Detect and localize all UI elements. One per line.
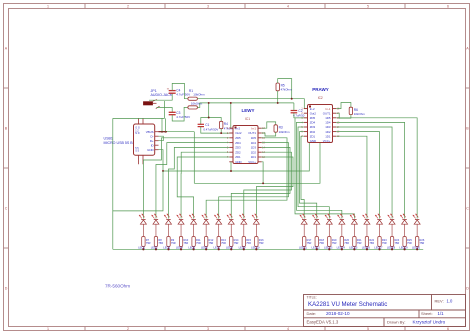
svg-text:LED6: LED6 xyxy=(201,246,208,250)
svg-text:C: C xyxy=(466,206,469,210)
IC1 VCC pin row8 xyxy=(258,161,262,163)
svg-text:4: 4 xyxy=(287,5,289,9)
svg-text:75R: 75R xyxy=(407,241,412,245)
capacitor C2 xyxy=(291,110,298,112)
wire IC1 1D1 to LED6 xyxy=(256,157,293,219)
LED LED10 xyxy=(252,214,259,224)
svg-text:In-2: In-2 xyxy=(235,126,240,130)
resistor R4 xyxy=(220,121,223,128)
svg-text:LED14: LED14 xyxy=(337,246,346,250)
svg-text:LED2: LED2 xyxy=(151,246,158,250)
svg-text:In-1: In-1 xyxy=(326,107,331,111)
svg-text:75R: 75R xyxy=(307,241,312,245)
svg-text:GND: GND xyxy=(235,160,241,164)
junction bottom node xyxy=(220,132,222,134)
junction R2 line / C1R4 drop xyxy=(208,102,210,104)
LED LED20 xyxy=(413,214,420,224)
wire LED11 anode to resistor xyxy=(303,224,305,236)
svg-text:In-1: In-1 xyxy=(251,126,256,130)
wire IC1 ZD2 to LED4 xyxy=(181,152,229,218)
wire IC2 In-1 bridge to R6 xyxy=(336,103,351,109)
wire resistor R23 to bus xyxy=(379,247,381,250)
LED LED7 xyxy=(214,214,221,224)
wire LED7 anode to resistor xyxy=(218,224,220,236)
svg-text:7R-560Ohm: 7R-560Ohm xyxy=(105,283,130,288)
svg-text:VCC+: VCC+ xyxy=(248,160,256,164)
svg-text:1D3: 1D3 xyxy=(325,125,331,129)
op-amp U IC1 KA2281 body xyxy=(233,126,258,164)
wire resistor R13 to bus xyxy=(218,247,220,250)
svg-text:IC1: IC1 xyxy=(245,117,250,121)
svg-text:0.47uF/50V: 0.47uF/50V xyxy=(203,128,218,132)
wire C1 R4 top node xyxy=(201,118,221,125)
wire IC2 1D3 to LED18 xyxy=(336,127,392,219)
svg-text:ZD5: ZD5 xyxy=(310,116,316,120)
svg-text:75R: 75R xyxy=(196,241,201,245)
svg-text:C1: C1 xyxy=(205,123,209,127)
wire IC2 ZD1 to LED15 xyxy=(301,136,304,218)
wire LED14 anode to resistor xyxy=(341,224,343,236)
svg-text:1D2: 1D2 xyxy=(251,150,257,154)
resistor R25 xyxy=(403,237,406,247)
wire LED20 anode to resistor xyxy=(416,224,418,236)
LED LED4 xyxy=(177,214,184,224)
wire LED2 anode to resistor xyxy=(155,224,157,236)
wire resistor R24 to bus xyxy=(391,247,393,250)
wire C3 bottom to R2 xyxy=(172,107,188,121)
IC2 VCC pin bottom xyxy=(319,142,321,144)
wire LED10 anode to resistor xyxy=(255,224,257,236)
IC1 GND pin row8 xyxy=(229,161,233,163)
IC1 pin stubs right xyxy=(258,127,262,129)
wire LED19 anode to resistor xyxy=(404,224,406,236)
svg-text:LED3: LED3 xyxy=(163,246,170,250)
wire C2 bottom to IC2 pin xyxy=(294,113,308,118)
wire LED5 anode to resistor xyxy=(193,224,195,236)
svg-text:4.7uF/50: 4.7uF/50 xyxy=(293,113,305,117)
title block xyxy=(304,295,466,327)
junction R23 bus xyxy=(378,248,380,250)
svg-text:1D4: 1D4 xyxy=(251,141,257,145)
svg-text:LED5: LED5 xyxy=(188,246,195,250)
wire R3 bottom to OUT1 xyxy=(262,132,276,136)
wire LED12 anode to resistor xyxy=(316,224,318,236)
resistor R3 xyxy=(274,125,277,132)
svg-text:TITLE:: TITLE: xyxy=(307,295,317,299)
svg-text:1D2: 1D2 xyxy=(325,130,331,134)
svg-text:LED8: LED8 xyxy=(226,246,233,250)
svg-text:ID: ID xyxy=(151,143,154,147)
resistor R23 xyxy=(378,237,381,247)
IC2 pin stubs right xyxy=(333,108,337,110)
svg-text:2: 2 xyxy=(127,5,129,9)
resistor R20 xyxy=(340,237,343,247)
junction R17 bus xyxy=(303,248,305,250)
wire resistor R10 to bus xyxy=(180,247,182,250)
wire resistor R11 to bus xyxy=(193,247,195,250)
wire shell/sleeve net xyxy=(164,101,166,118)
USB shell pins top xyxy=(138,118,140,124)
LED LED5 xyxy=(189,214,196,224)
junction R16 bus xyxy=(255,248,257,250)
svg-text:ZD2: ZD2 xyxy=(235,150,241,154)
svg-text:75R: 75R xyxy=(209,241,214,245)
svg-text:75R: 75R xyxy=(420,241,425,245)
junction R19 bus xyxy=(328,248,330,250)
svg-text:1.0: 1.0 xyxy=(447,298,453,303)
svg-text:LED16: LED16 xyxy=(362,246,371,250)
svg-text:ZD4: ZD4 xyxy=(310,121,316,125)
connector USB1 MICRO-USB xyxy=(134,124,155,155)
svg-text:KA2281 VU Meter Schematic: KA2281 VU Meter Schematic xyxy=(308,301,387,308)
svg-text:75R: 75R xyxy=(158,241,163,245)
LED LED2 xyxy=(152,214,159,224)
wire LED9 anode to resistor xyxy=(243,224,245,236)
LED LED19 xyxy=(400,214,407,224)
svg-text:IC2: IC2 xyxy=(318,96,323,100)
svg-text:10kOhm: 10kOhm xyxy=(193,92,205,96)
wire LED6 anode to resistor xyxy=(205,224,207,236)
svg-text:4: 4 xyxy=(287,327,289,331)
svg-text:75R: 75R xyxy=(171,241,176,245)
junction R9 bus xyxy=(167,248,169,250)
svg-text:LED9: LED9 xyxy=(239,246,246,250)
junction R12 bus xyxy=(205,248,207,250)
frame column ticks top xyxy=(84,4,86,9)
svg-text:ZD5: ZD5 xyxy=(235,136,241,140)
junction R24 bus xyxy=(391,248,393,250)
wire jack tip to C4 xyxy=(149,93,172,100)
junction R15 bus xyxy=(243,248,245,250)
svg-text:75R: 75R xyxy=(221,241,226,245)
frame row ticks left xyxy=(4,87,9,89)
svg-text:MICRO USB 5S B: MICRO USB 5S B xyxy=(104,141,134,145)
LED LED14 xyxy=(337,214,344,224)
svg-text:3: 3 xyxy=(207,327,209,331)
wire IC2 ZD2 to LED14 xyxy=(300,132,317,219)
svg-text:1: 1 xyxy=(47,327,49,331)
junction IC1 GND on rail xyxy=(230,170,232,172)
wire IC2 ZD4 to LED12 xyxy=(297,122,342,218)
wire VBUS net segment xyxy=(159,131,168,133)
wire LED1 anode to resistor xyxy=(142,224,144,236)
svg-text:1D3: 1D3 xyxy=(251,146,257,150)
svg-text:1D1: 1D1 xyxy=(251,155,257,159)
wire LED4 anode to resistor xyxy=(180,224,182,236)
wire jack ring to C3 xyxy=(157,108,173,113)
svg-text:N D: N D xyxy=(135,132,140,135)
svg-text:4.7uF/50V: 4.7uF/50V xyxy=(176,93,190,97)
wire VBUS tap up right xyxy=(165,118,167,131)
resistor R26 xyxy=(415,237,418,247)
wire VBUS tap up left xyxy=(161,118,163,131)
svg-text:75R: 75R xyxy=(259,241,264,245)
wire IC1 In-1 bridge to R3 xyxy=(262,122,276,128)
LED LED18 xyxy=(388,214,395,224)
svg-text:75R: 75R xyxy=(369,241,374,245)
junction top node xyxy=(208,117,210,119)
wire resistor R7 to bus xyxy=(142,247,144,250)
wire resistor R20 to bus xyxy=(341,247,343,250)
svg-text:10kOhm: 10kOhm xyxy=(279,130,291,134)
wire IC2 1D5 to LED20 xyxy=(336,118,417,219)
wire LED15 anode to resistor xyxy=(353,224,355,236)
svg-text:75R: 75R xyxy=(146,241,151,245)
junction R10 bus xyxy=(180,248,182,250)
svg-text:ZD4: ZD4 xyxy=(235,141,241,145)
svg-text:LED20: LED20 xyxy=(412,246,421,250)
svg-text:75R: 75R xyxy=(319,241,324,245)
junction R22 bus xyxy=(366,248,368,250)
wire resistor R19 to bus xyxy=(328,247,330,250)
wire IC2 ZD5 to LED11 xyxy=(295,118,354,219)
wire shell left drop to LED bus xyxy=(112,118,114,249)
svg-text:1D5: 1D5 xyxy=(325,116,331,120)
junction R14 bus xyxy=(230,248,232,250)
svg-text:OUT1: OUT1 xyxy=(323,111,331,115)
LED LED13 xyxy=(325,214,332,224)
wire IC1 1D2 to LED7 xyxy=(244,152,292,218)
junction R7 bus xyxy=(142,248,144,250)
wire R6 bottom to OUT1 xyxy=(336,113,351,118)
svg-text:1/1: 1/1 xyxy=(438,311,445,316)
wire IC1 1D3 to LED8 xyxy=(231,147,290,218)
resistor R1 xyxy=(188,97,198,100)
svg-text:GND: GND xyxy=(310,139,316,143)
wire VCC rail xyxy=(194,143,320,184)
junction R5 bottom xyxy=(277,102,279,104)
svg-text:LED13: LED13 xyxy=(324,246,333,250)
IC2 GND pin bottom xyxy=(308,142,310,144)
resistor R24 xyxy=(390,237,393,247)
resistor R6 xyxy=(349,107,352,114)
resistor R21 xyxy=(353,237,356,247)
svg-text:VCC+: VCC+ xyxy=(323,139,331,143)
svg-text:75R: 75R xyxy=(382,241,387,245)
wire IC2 1D2 to LED17 xyxy=(336,132,379,219)
wire IC1 ZD1 to LED5 xyxy=(177,157,229,219)
svg-text:75R: 75R xyxy=(394,241,399,245)
resistor R11 xyxy=(192,237,195,247)
svg-text:GND: GND xyxy=(147,148,153,152)
wire IC1 ZD4 to LED2 xyxy=(156,143,229,219)
svg-text:6: 6 xyxy=(447,327,449,331)
wire USB GND to GND rail xyxy=(159,150,164,171)
svg-text:10kOhm: 10kOhm xyxy=(191,101,203,105)
IC1 pin stubs left xyxy=(229,127,233,129)
junction R8 bus xyxy=(155,248,157,250)
LED LED11 xyxy=(300,214,307,224)
svg-text:R4: R4 xyxy=(224,122,228,126)
LED LED1 xyxy=(139,214,146,224)
resistor R5 xyxy=(276,83,279,91)
wire IC2 1D4 to LED19 xyxy=(336,122,404,218)
svg-text:D+: D+ xyxy=(150,139,154,143)
wire IC1 1D4 to LED9 xyxy=(219,143,289,219)
svg-text:EasyEDA V5.1.3: EasyEDA V5.1.3 xyxy=(307,320,339,325)
wire VBUS drop to VCC rail xyxy=(193,132,195,184)
connector JP1 AUDIO-JACK xyxy=(144,102,153,105)
junction VBUS taps xyxy=(161,131,163,133)
resistor R9 xyxy=(167,237,170,247)
svg-text:LED4: LED4 xyxy=(176,246,183,250)
junction In-2 drop xyxy=(230,102,232,104)
svg-text:Out2: Out2 xyxy=(235,131,242,135)
svg-text:5: 5 xyxy=(367,327,369,331)
svg-text:ZD3: ZD3 xyxy=(235,146,241,150)
junction R21 bus xyxy=(353,248,355,250)
LED LED12 xyxy=(312,214,319,224)
wire R5 top bridge to R1 line xyxy=(278,79,292,99)
svg-text:ZD2: ZD2 xyxy=(310,130,316,134)
wire IC1 ZD3 to LED3 xyxy=(169,147,230,218)
svg-text:LED19: LED19 xyxy=(399,246,408,250)
USB shell pins bottom xyxy=(138,155,140,164)
svg-text:4.7uF/50V: 4.7uF/50V xyxy=(176,115,190,119)
svg-text:VBUS: VBUS xyxy=(146,130,154,134)
wire resistor R21 to bus xyxy=(353,247,355,250)
op-amp U IC2 KA2281 body xyxy=(308,105,333,143)
svg-text:75R: 75R xyxy=(357,241,362,245)
svg-text:LEWY: LEWY xyxy=(242,108,255,113)
wire R5 bottom to R2 line xyxy=(277,91,279,103)
svg-text:75R: 75R xyxy=(344,241,349,245)
resistor R2 xyxy=(188,106,198,109)
svg-text:3: 3 xyxy=(207,5,209,9)
wire drop to IC1 In-2 xyxy=(231,103,233,128)
junction GND rail left xyxy=(162,170,164,172)
LED LED17 xyxy=(375,214,382,224)
junction R13 bus xyxy=(218,248,220,250)
junction R26 bus xyxy=(416,248,418,250)
wire resistor R25 to bus xyxy=(404,247,406,250)
resistor R15 xyxy=(242,237,245,247)
svg-text:75R: 75R xyxy=(183,241,188,245)
svg-text:ZD1: ZD1 xyxy=(310,134,316,138)
resistor R7 xyxy=(142,237,145,247)
resistor R19 xyxy=(328,237,331,247)
svg-text:1: 1 xyxy=(47,5,49,9)
svg-text:Sheet:: Sheet: xyxy=(421,311,433,316)
wire resistor R16 to bus xyxy=(255,247,257,250)
wire resistor R22 to bus xyxy=(366,247,368,250)
svg-text:C: C xyxy=(5,206,8,210)
junction R20 bus xyxy=(341,248,343,250)
svg-text:S S: S S xyxy=(135,150,139,153)
resistor R10 xyxy=(179,237,182,247)
wire R2 line drop to C1 R4 node xyxy=(208,103,210,118)
junction R18 bus xyxy=(316,248,318,250)
svg-text:ZD3: ZD3 xyxy=(310,125,316,129)
wire resistor R12 to bus xyxy=(205,247,207,250)
capacitor C3 xyxy=(169,111,176,113)
wire LED supply bus xyxy=(113,248,423,250)
svg-text:10kOhm: 10kOhm xyxy=(354,112,366,116)
resistor R16 xyxy=(255,237,258,247)
svg-text:LED7: LED7 xyxy=(214,246,221,250)
wire R2 line to C2 top xyxy=(293,103,295,111)
IC2 pin-1 mark xyxy=(309,106,311,108)
svg-text:LED17: LED17 xyxy=(374,246,383,250)
svg-text:D: D xyxy=(5,286,8,290)
wire resistor R17 to bus xyxy=(303,247,305,250)
svg-text:D: D xyxy=(466,286,469,290)
wire IC1 1D5 to LED10 xyxy=(206,138,287,219)
junction R5 bridge on R1 line xyxy=(291,98,293,100)
IC2 pin stubs left xyxy=(304,108,308,110)
svg-text:6: 6 xyxy=(447,5,449,9)
svg-text:75R: 75R xyxy=(332,241,337,245)
svg-text:Drawn By:: Drawn By: xyxy=(387,320,405,325)
wire C4 top bridge to R1 xyxy=(172,83,188,98)
wire LED17 anode to resistor xyxy=(379,224,381,236)
svg-text:2: 2 xyxy=(127,327,129,331)
wire resistor R14 to bus xyxy=(230,247,232,250)
svg-text:Date:: Date: xyxy=(307,311,317,316)
svg-text:LED18: LED18 xyxy=(387,246,396,250)
wire LED8 anode to resistor xyxy=(230,224,232,236)
LED LED6 xyxy=(202,214,209,224)
wire resistor R8 to bus xyxy=(155,247,157,250)
svg-text:5: 5 xyxy=(367,5,369,9)
wire resistor R9 to bus xyxy=(168,247,170,250)
capacitor C4 xyxy=(169,90,176,92)
resistor R12 xyxy=(204,237,207,247)
wire D- D+ loop xyxy=(159,136,164,141)
svg-text:LED1: LED1 xyxy=(138,246,145,250)
wire LED13 anode to resistor xyxy=(328,224,330,236)
svg-text:ZD1: ZD1 xyxy=(235,155,241,159)
svg-text:LED11: LED11 xyxy=(299,246,308,250)
IC1 pin-1 mark xyxy=(235,127,237,129)
resistor R17 xyxy=(303,237,306,247)
resistor R18 xyxy=(315,237,318,247)
capacitor C1 xyxy=(198,123,204,125)
svg-text:47kOhm: 47kOhm xyxy=(281,88,293,92)
wire GND rail left drop xyxy=(113,171,163,211)
wire resistor R26 to bus xyxy=(416,247,418,250)
svg-text:LED12: LED12 xyxy=(312,246,321,250)
junction R25 bus xyxy=(404,248,406,250)
resistor R13 xyxy=(217,237,220,247)
LED LED16 xyxy=(363,214,370,224)
svg-text:Out2: Out2 xyxy=(310,111,317,115)
wire GND rail xyxy=(163,143,309,172)
resistor R8 xyxy=(154,237,157,247)
wire IC1 ZD5 to LED1 xyxy=(143,138,229,219)
wire IC2 1D1 to LED16 xyxy=(336,136,367,218)
svg-text:75R: 75R xyxy=(246,241,251,245)
svg-text:REV:: REV: xyxy=(435,298,444,303)
LED LED3 xyxy=(164,214,171,224)
svg-text:OUT1: OUT1 xyxy=(248,131,256,135)
svg-text:1D4: 1D4 xyxy=(325,121,331,125)
wire IC2 ZD3 to LED13 xyxy=(298,127,329,219)
wire LED3 anode to resistor xyxy=(168,224,170,236)
USB pin stubs right xyxy=(155,131,159,133)
wire C1 R4 bottom node to Out2 xyxy=(201,127,233,134)
wire resistor R15 to bus xyxy=(243,247,245,250)
svg-text:LED10: LED10 xyxy=(251,246,260,250)
svg-text:1D5: 1D5 xyxy=(251,136,257,140)
frame row ticks right xyxy=(466,87,470,89)
svg-text:In-2: In-2 xyxy=(310,107,315,111)
svg-text:LED15: LED15 xyxy=(349,246,358,250)
svg-text:PRAWY: PRAWY xyxy=(312,87,329,92)
wire resistor R18 to bus xyxy=(316,247,318,250)
resistor R22 xyxy=(365,237,368,247)
svg-text:Krzysztof Undro: Krzysztof Undro xyxy=(413,320,446,325)
